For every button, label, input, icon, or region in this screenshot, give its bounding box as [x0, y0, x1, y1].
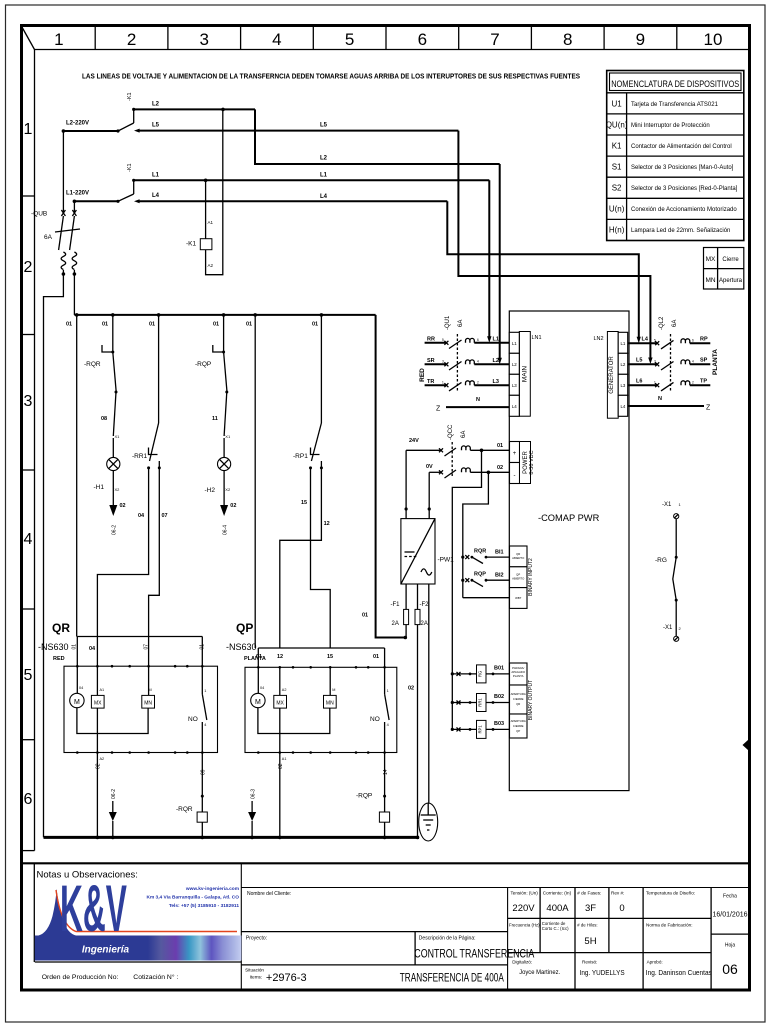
svg-text:6: 6 [477, 338, 479, 342]
net 01 feed to binary outputs [452, 450, 481, 729]
bottom return bus 02 [44, 836, 420, 840]
svg-text:L1: L1 [493, 337, 499, 343]
svg-text:2A: 2A [392, 621, 399, 627]
svg-text:400A: 400A [546, 903, 569, 914]
contact RP1 [293, 315, 323, 470]
relay coil RQP [356, 793, 390, 838]
svg-text:24V: 24V [409, 438, 419, 444]
svg-text:07: 07 [144, 644, 150, 650]
svg-text:Digitalizó:: Digitalizó: [512, 960, 532, 965]
svg-text:B02: B02 [494, 694, 504, 700]
svg-text:# de Fases:: # de Fases: [577, 891, 601, 896]
wire TR into main L3 [425, 379, 510, 391]
svg-text:www.kv-ingenieria.com: www.kv-ingenieria.com [185, 886, 239, 892]
svg-text:Descripción de la Página:: Descripción de la Página: [419, 936, 476, 942]
logo K&V [35, 871, 242, 960]
svg-text:09: 09 [201, 769, 207, 775]
contactor coil K1 [186, 109, 223, 274]
svg-text:-RQR: -RQR [176, 806, 193, 813]
svg-text:Nombre del Cliente:: Nombre del Cliente: [247, 891, 291, 897]
svg-text:Conexión de Accionamiento Moto: Conexión de Accionamiento Motorizado [631, 207, 737, 213]
svg-text:5: 5 [442, 338, 444, 342]
wire SR into main L2 [425, 358, 510, 370]
svg-text:06: 06 [722, 961, 738, 977]
wire L5 [134, 123, 458, 133]
wire L4 drop to generator [447, 201, 641, 343]
svg-text:A1: A1 [100, 688, 105, 692]
svg-text:6A: 6A [44, 234, 53, 241]
page description cell [414, 932, 534, 965]
contact RQR with lamp feed [84, 315, 120, 439]
svg-text:X2: X2 [225, 487, 231, 492]
svg-text:-H1: -H1 [94, 484, 105, 491]
wire L1 drop to main [487, 180, 491, 342]
svg-text:A2: A2 [282, 688, 287, 692]
svg-text:02: 02 [96, 763, 102, 769]
svg-text:0: 0 [619, 903, 624, 914]
svg-text:Mini Interruptor de Protecció: Mini Interruptor de Protección [631, 123, 710, 129]
node 01 feeder to QP block [254, 315, 256, 648]
svg-text:L4: L4 [152, 193, 160, 199]
wire L1-220V [66, 191, 118, 204]
svg-text:Aprobó:: Aprobó: [647, 960, 663, 965]
svg-text:-RR1: -RR1 [132, 453, 148, 460]
svg-text:N: N [658, 396, 662, 402]
svg-text:Cotización N° :: Cotización N° : [133, 973, 178, 981]
svg-text:H(n): H(n) [609, 226, 625, 235]
svg-text:L2: L2 [620, 362, 625, 367]
svg-text:M: M [255, 699, 261, 706]
svg-text:14: 14 [383, 769, 389, 775]
svg-text:8-36 VDC: 8-36 VDC [529, 450, 535, 474]
svg-text:-H2: -H2 [205, 487, 216, 494]
svg-text:CIERRE: CIERRE [513, 697, 524, 701]
wire L5/SP out of generator [628, 358, 711, 371]
svg-text:5: 5 [24, 667, 33, 684]
svg-text:MX: MX [94, 700, 102, 706]
wire 04 (RR1 to QR MX) [97, 468, 148, 637]
svg-text:Cierre: Cierre [722, 257, 739, 263]
svg-text:5: 5 [654, 338, 656, 342]
output B01 with relay RG [451, 665, 510, 683]
svg-text:4: 4 [204, 723, 206, 727]
svg-text:X2: X2 [115, 487, 121, 492]
svg-text:12: 12 [324, 521, 330, 527]
net 02 feed to binary input common [463, 472, 489, 597]
svg-text:A2: A2 [208, 263, 214, 268]
svg-text:Corto C.: (Icc): Corto C.: (Icc) [542, 926, 569, 931]
contact RQP to BI2 [461, 572, 509, 587]
svg-text:-NS630: -NS630 [226, 642, 257, 652]
svg-text:01: 01 [102, 322, 108, 328]
svg-text:MAIN: MAIN [522, 366, 529, 383]
svg-text:B01: B01 [494, 666, 504, 672]
svg-text:Orden de Producción No:: Orden de Producción No: [42, 974, 119, 981]
fold mark on right frame [743, 740, 749, 751]
svg-text:LN2: LN2 [594, 336, 604, 342]
svg-text:4: 4 [387, 723, 389, 727]
svg-text:APERTURA: APERTURA [511, 692, 526, 696]
lamp H2 [205, 438, 237, 535]
wire L6/TP out of generator [628, 379, 711, 391]
svg-text:-QU1: -QU1 [445, 315, 451, 330]
wire 07 (RR1 to QR MN) [149, 468, 168, 637]
svg-text:04: 04 [260, 686, 264, 690]
svg-text:NOMENCLATURA DE DISPOSITIVOS: NOMENCLATURA DE DISPOSITIVOS [611, 79, 739, 89]
svg-text:# de Hilos:: # de Hilos: [577, 923, 597, 928]
svg-text:01: 01 [246, 322, 252, 328]
svg-text:06-4: 06-4 [222, 525, 228, 535]
svg-text:L4: L4 [642, 337, 649, 343]
lamp H1 [94, 438, 126, 535]
svg-text:Apertura: Apertura [719, 278, 743, 284]
svg-text:06-2: 06-2 [111, 789, 117, 799]
fuse F2 [408, 584, 429, 837]
svg-text:X1: X1 [225, 434, 231, 439]
svg-text:BI2: BI2 [495, 573, 504, 579]
svg-text:SR: SR [427, 358, 435, 364]
svg-text:-K1: -K1 [127, 163, 133, 172]
svg-text:02: 02 [278, 763, 284, 769]
svg-text:Z: Z [706, 405, 711, 412]
svg-text:4: 4 [477, 360, 479, 364]
svg-text:-F1: -F1 [391, 602, 401, 608]
svg-text:02: 02 [408, 686, 414, 692]
svg-text:5H: 5H [584, 936, 596, 947]
svg-text:BINARY INPUT2: BINARY INPUT2 [528, 558, 534, 596]
svg-text:Tensión: (Un): Tensión: (Un) [511, 891, 539, 896]
svg-text:-: - [514, 473, 516, 479]
svg-text:3F: 3F [585, 903, 596, 914]
row numbers 1-6 [24, 121, 33, 808]
wire neutral N/Z generator side [628, 396, 711, 412]
svg-text:-QUB: -QUB [31, 211, 47, 218]
current cell [542, 891, 572, 932]
contact NO of QP [370, 667, 389, 796]
svg-text:1: 1 [442, 381, 444, 385]
svg-text:RQP: RQP [474, 572, 486, 578]
wire L5 drop to generator [458, 131, 652, 364]
output B02 with relay RR1 [451, 694, 510, 712]
svg-text:RED: RED [53, 656, 65, 662]
voltage cell [509, 891, 540, 928]
wire 01 bus end to fuse F1 [362, 315, 407, 639]
svg-text:Items:: Items: [250, 975, 263, 980]
svg-text:-X1: -X1 [663, 625, 673, 631]
svg-text:PLANTA: PLANTA [244, 656, 266, 662]
svg-text:RR: RR [427, 337, 435, 343]
svg-text:MX: MX [706, 256, 716, 263]
svg-text:L4: L4 [620, 404, 625, 409]
svg-text:APERTURA: APERTURA [511, 719, 526, 723]
svg-text:02: 02 [230, 503, 236, 509]
svg-text:PLANTA: PLANTA [712, 349, 719, 375]
svg-text:-RG: -RG [655, 557, 667, 564]
svg-text:Fecha: Fecha [723, 894, 737, 900]
svg-text:RP1: RP1 [478, 725, 483, 734]
svg-text:Joyce Martinez.: Joyce Martinez. [519, 969, 560, 976]
svg-text:4: 4 [24, 531, 33, 548]
terminal X1:1 [662, 502, 682, 519]
svg-text:B03: B03 [494, 721, 504, 727]
terminal strip POWER [510, 442, 536, 484]
control bus 01 [66, 313, 376, 327]
relay coil RQR [176, 795, 207, 838]
svg-text:220V: 220V [512, 903, 535, 914]
svg-text:11: 11 [212, 416, 218, 422]
svg-text:+: + [513, 451, 517, 457]
terminal strip BINARY OUTPUT [510, 663, 535, 738]
svg-text:02: 02 [120, 503, 126, 509]
svg-text:Proyecto:: Proyecto: [246, 936, 267, 942]
svg-text:Norma de Fabricación:: Norma de Fabricación: [646, 923, 692, 928]
svg-text:RR1: RR1 [478, 698, 483, 707]
wire L4/RP out of generator [628, 337, 711, 349]
breaker QL2 [659, 316, 678, 392]
wire neutral Z into main L4 [436, 397, 509, 413]
net arrow 06-3 into bus [248, 789, 256, 838]
project cell [241, 932, 507, 942]
svg-text:1: 1 [679, 502, 682, 507]
svg-text:MN: MN [705, 277, 715, 284]
svg-text:L5: L5 [636, 358, 642, 364]
svg-text:2: 2 [477, 381, 479, 385]
wire L2 top [134, 102, 255, 112]
svg-text:8: 8 [563, 30, 572, 49]
svg-text:0V: 0V [426, 464, 433, 470]
svg-text:01: 01 [72, 644, 78, 650]
svg-text:Selector de 3 Posiciones [Red-: Selector de 3 Posiciones [Red-0-Planta] [631, 186, 738, 192]
svg-text:7: 7 [490, 30, 499, 49]
svg-text:L3: L3 [512, 383, 517, 388]
svg-text:+2976-3: +2976-3 [266, 972, 307, 984]
svg-text:L2-220V: L2-220V [66, 121, 89, 127]
svg-text:-NS630: -NS630 [38, 642, 69, 652]
svg-text:QU(n): QU(n) [606, 121, 628, 130]
svg-text:15: 15 [301, 500, 307, 506]
svg-text:04: 04 [79, 686, 83, 690]
data grid right [508, 888, 749, 990]
nomenclature table [606, 71, 744, 241]
contactor K1 pole lower (L1/L4) [116, 163, 135, 202]
svg-text:Selector de 3 Posiciones [Man-: Selector de 3 Posiciones [Man-0-Auto] [631, 165, 734, 171]
svg-text:L3: L3 [493, 379, 499, 385]
svg-text:L2: L2 [152, 102, 160, 108]
wire 02 to common terminal [463, 597, 510, 599]
wire 12 (RP1 to QP MX) [280, 468, 330, 648]
svg-text:L4: L4 [320, 194, 328, 200]
svg-text:5: 5 [345, 30, 354, 49]
svg-text:NO: NO [188, 716, 198, 723]
svg-text:L5: L5 [152, 123, 160, 129]
svg-text:A2: A2 [100, 757, 105, 761]
MX/MN legend table [704, 248, 744, 290]
svg-text:2: 2 [127, 30, 136, 49]
contact RG remote start [655, 519, 678, 636]
phases cell [577, 891, 601, 948]
svg-text:L1: L1 [152, 173, 160, 179]
contact NO of QR [188, 666, 207, 796]
svg-text:N: N [476, 397, 480, 403]
coil MX of QR [91, 666, 104, 837]
phase RED label [419, 368, 426, 382]
svg-text:-X1: -X1 [662, 502, 672, 508]
terminal strip BINARY INPUT2 [510, 546, 535, 608]
ATS controller box U1 [509, 311, 629, 791]
svg-text:3: 3 [442, 360, 444, 364]
svg-text:SP: SP [700, 358, 708, 364]
svg-text:Ing. YUDELLYS: Ing. YUDELLYS [580, 968, 625, 977]
svg-text:Revisó:: Revisó: [582, 960, 597, 965]
svg-text:L4: L4 [512, 404, 517, 409]
breaker QU1 [445, 315, 464, 392]
logo contact info [146, 886, 239, 909]
svg-text:BI1: BI1 [495, 550, 504, 556]
svg-text:06-2: 06-2 [112, 525, 118, 535]
svg-text:15: 15 [327, 654, 333, 660]
svg-text:07: 07 [162, 513, 168, 519]
hoja cell [722, 943, 738, 978]
coil MN of QR [142, 666, 155, 708]
svg-text:-RP1: -RP1 [293, 453, 308, 460]
situacion row [241, 965, 507, 985]
svg-text:-RQP: -RQP [195, 361, 211, 368]
net arrow 06-2 into bus [109, 789, 117, 838]
svg-text:01: 01 [256, 654, 262, 660]
svg-text:3: 3 [199, 30, 208, 49]
svg-text:01: 01 [362, 613, 368, 619]
svg-text:A1: A1 [282, 757, 287, 761]
svg-text:2: 2 [679, 626, 682, 631]
svg-text:QP: QP [236, 621, 253, 635]
svg-text:02: 02 [497, 465, 503, 471]
svg-text:-QCC: -QCC [448, 424, 454, 440]
svg-text:CIERRE: CIERRE [513, 724, 524, 728]
client cell [247, 891, 291, 897]
motor breaker QR header [38, 621, 206, 666]
svg-text:06-3: 06-3 [251, 789, 257, 799]
svg-text:01: 01 [373, 654, 379, 660]
column header band [23, 27, 750, 50]
earth ground [419, 803, 438, 841]
svg-text:10: 10 [704, 30, 723, 49]
contact RR1 [132, 315, 161, 470]
svg-text:-QL2: -QL2 [659, 316, 665, 330]
motor breaker QP header [226, 621, 385, 667]
terminal X1:2 [663, 625, 682, 641]
svg-text:S2: S2 [612, 184, 622, 193]
fuse F1 [391, 584, 409, 638]
terminal strip MAIN LN1 [509, 332, 541, 417]
svg-text:BINARY OUTPUT: BINARY OUTPUT [528, 680, 534, 720]
svg-text:-F2: -F2 [420, 602, 430, 608]
svg-text:Rev #:: Rev #: [611, 891, 624, 896]
svg-text:L1-220V: L1-220V [66, 191, 89, 197]
contact RQP with lamp feed [195, 315, 231, 439]
breaker QCC [448, 424, 467, 478]
svg-text:S1: S1 [612, 163, 622, 172]
svg-text:01: 01 [200, 644, 206, 650]
svg-text:-RQP: -RQP [356, 793, 372, 800]
column numbers 1-10 [54, 30, 722, 49]
svg-text:Km 3,4 Via Barranquilla - Gala: Km 3,4 Via Barranquilla - Galapa, Atl. C… [146, 895, 239, 901]
svg-text:2A: 2A [421, 621, 428, 627]
svg-text:4: 4 [272, 30, 281, 49]
svg-text:9: 9 [636, 30, 645, 49]
svg-text:2: 2 [692, 380, 694, 384]
svg-text:2: 2 [24, 259, 33, 276]
svg-text:16/01/2016: 16/01/2016 [712, 912, 747, 919]
svg-text:TR: TR [427, 379, 434, 385]
svg-text:01: 01 [312, 322, 318, 328]
svg-text:4: 4 [692, 359, 694, 363]
svg-text:6: 6 [692, 338, 694, 342]
contactor K1 pole upper (L2/L5) [116, 92, 135, 132]
svg-text:Situación: Situación [245, 968, 264, 973]
svg-text:1: 1 [54, 30, 63, 49]
orden / cotizacion row [35, 962, 242, 981]
svg-text:RQR: RQR [474, 549, 486, 555]
svg-text:L2: L2 [512, 362, 517, 367]
svg-text:-COMAP PWR: -COMAP PWR [538, 513, 600, 523]
svg-text:L5: L5 [320, 123, 328, 129]
svg-text:Hoja: Hoja [725, 943, 736, 949]
svg-text:1: 1 [387, 689, 389, 693]
svg-text:A1: A1 [208, 220, 214, 225]
svg-text:Contactor de Alimentación del: Contactor de Alimentación del Control [631, 144, 732, 150]
svg-text:Temperatura de Diseño:: Temperatura de Diseño: [646, 891, 695, 896]
svg-text:QR: QR [516, 702, 520, 706]
svg-text:-RQR: -RQR [84, 361, 101, 368]
svg-text:L1: L1 [620, 341, 625, 346]
svg-text:-K1: -K1 [127, 92, 133, 101]
svg-text:LN1: LN1 [532, 335, 542, 341]
svg-text:TRANSFERENCIA DE 400A: TRANSFERENCIA DE 400A [400, 973, 504, 985]
svg-text:K&V: K&V [60, 871, 127, 945]
svg-text:U(n): U(n) [609, 205, 625, 214]
rev cell [611, 891, 625, 915]
wire L1 top [134, 173, 490, 183]
svg-text:X1: X1 [115, 434, 121, 439]
svg-text:01: 01 [66, 322, 72, 328]
svg-text:PLANTA: PLANTA [513, 674, 524, 678]
svg-text:GENERATOR: GENERATOR [609, 356, 615, 394]
svg-text:3: 3 [654, 359, 656, 363]
svg-text:L2: L2 [320, 156, 328, 162]
svg-text:Tels: +57 (5) 3185910 - 318291: Tels: +57 (5) 3185910 - 3182911 [169, 903, 240, 909]
svg-text:TP: TP [700, 379, 707, 385]
wire L4 [134, 193, 447, 203]
svg-text:01: 01 [213, 322, 219, 328]
temperatura cell [646, 891, 695, 928]
svg-text:RG: RG [478, 671, 483, 677]
motor breaker QP block [245, 666, 397, 754]
svg-text:1: 1 [654, 380, 656, 384]
svg-text:1: 1 [204, 689, 206, 693]
contact RQR to BI1 [461, 549, 509, 564]
ground wire from PW1 [428, 584, 430, 803]
svg-text:08: 08 [101, 416, 107, 422]
svg-text:NO: NO [370, 716, 380, 723]
svg-text:M: M [149, 688, 152, 692]
svg-text:L1: L1 [320, 173, 328, 179]
motor M of QP [251, 667, 330, 733]
fecha cell [712, 894, 747, 919]
svg-text:K1: K1 [612, 142, 622, 151]
svg-text:ABIERTO: ABIERTO [512, 577, 525, 581]
svg-text:Ing. Daninson Cuentas: Ing. Daninson Cuentas [646, 968, 712, 977]
svg-text:3: 3 [24, 393, 33, 410]
